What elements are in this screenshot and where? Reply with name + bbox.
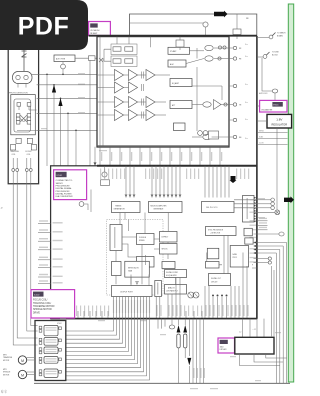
svg-text:TRAVERSE MOTOR/: TRAVERSE MOTOR/	[33, 305, 55, 308]
driver output pads	[59, 371, 62, 374]
laser package	[13, 72, 33, 84]
wire pin stub	[139, 147, 141, 165]
svg-text:EQ AMP: EQ AMP	[172, 82, 180, 85]
wire amp input	[97, 87, 115, 89]
op-amp stage B3	[129, 97, 138, 108]
EQ box 1	[168, 47, 190, 54]
test point	[229, 104, 233, 106]
wire interstage C	[138, 74, 146, 76]
wire PD out E	[37, 112, 97, 114]
test point	[229, 136, 233, 138]
svg-text:TO SERVO: TO SERVO	[277, 33, 286, 35]
svg-text:D/A CONVERTER: D/A CONVERTER	[56, 195, 73, 198]
wire vert feed 2	[53, 85, 55, 166]
svg-text:XLAT: XLAT	[259, 136, 263, 139]
wire drive line	[66, 297, 132, 356]
svg-text:2.2: 2.2	[239, 332, 241, 334]
svg-text:CIRCUIT: CIRCUIT	[211, 282, 217, 284]
wire drive line	[66, 297, 138, 364]
wire PD out A	[75, 57, 97, 59]
wire bottom pin stubs	[77, 311, 79, 319]
wire bus row	[257, 144, 288, 146]
PLL box	[202, 202, 235, 213]
wire RF vert j1	[196, 67, 198, 131]
wire RF vert rail	[99, 37, 101, 146]
servo interior wires	[156, 278, 180, 319]
op-amp stage A2	[115, 82, 124, 93]
fan pin labels	[113, 300, 114, 313]
wire vert feed 6	[89, 58, 91, 166]
wire pin stub left	[38, 283, 51, 285]
op-amp stage B1	[129, 70, 138, 81]
traverse motor M501	[18, 356, 26, 364]
wire pin stub	[179, 147, 181, 165]
svg-text:Ⓤ Ⓛ: Ⓤ Ⓛ	[1, 390, 7, 394]
svg-text:VR501: VR501	[273, 105, 279, 107]
svg-text:INTERFACE: INTERFACE	[154, 207, 165, 210]
pickup terminal pads	[16, 138, 21, 143]
svg-text:Vcc: Vcc	[245, 56, 248, 58]
wire RF out row1	[190, 50, 205, 52]
EFM comparator	[279, 232, 284, 236]
wire pin stub	[189, 147, 191, 165]
wire interstage	[124, 101, 129, 103]
svg-text:MOTOR: MOTOR	[3, 360, 10, 362]
connector to disk 1	[257, 37, 269, 39]
wire drive line	[66, 297, 150, 381]
transistor Q102	[61, 64, 66, 69]
wire pin stub	[99, 147, 101, 165]
transistor Q104	[205, 56, 213, 61]
IC501 top pin labels	[100, 169, 101, 180]
IC502 driver block	[35, 321, 66, 381]
servo block bottom edge	[51, 318, 257, 320]
wire pd loop	[17, 106, 37, 130]
analog LPF box	[165, 285, 187, 295]
optical pickup assembly outline	[8, 46, 38, 184]
wire RF out row3	[192, 104, 202, 106]
wire vert feed 1	[46, 74, 48, 166]
wire drive line	[66, 297, 144, 372]
wire drive line	[66, 297, 114, 332]
svg-text:SYNC PROCESSOR: SYNC PROCESSOR	[208, 230, 224, 232]
svg-text:Vcc: Vcc	[245, 119, 248, 121]
wire tracking coil -	[17, 171, 37, 338]
wire pin stub	[199, 147, 201, 165]
svg-text:FOCUS: FOCUS	[26, 151, 33, 153]
svg-text:TRAVERSE: TRAVERSE	[3, 356, 13, 359]
wire aux col	[270, 265, 272, 267]
timing generator box	[112, 202, 141, 213]
svg-text:TIMING: TIMING	[115, 205, 122, 207]
capacitor bank	[142, 72, 144, 79]
test point	[229, 58, 233, 60]
diode D102	[99, 58, 103, 62]
digital out box	[206, 262, 220, 269]
svg-text:REGULATOR: REGULATOR	[271, 122, 287, 126]
wire pin stub	[119, 147, 121, 165]
pin stub labels	[101, 152, 102, 161]
wire RF vert rail2	[102, 58, 104, 146]
shield terminals	[188, 292, 194, 298]
wire amp input	[97, 114, 115, 116]
wire PD out D	[37, 97, 97, 99]
wire photodiode cross	[20, 115, 27, 122]
wire drive line	[66, 297, 141, 368]
output port box	[112, 286, 153, 297]
1.8V regulator	[267, 114, 292, 128]
transistor Q106	[203, 134, 211, 139]
svg-text:MICROCOMPUTER: MICROCOMPUTER	[151, 205, 168, 207]
driver input pads	[39, 338, 42, 341]
wire amp input	[97, 101, 115, 103]
svg-text:3T AMP: 3T AMP	[170, 50, 177, 53]
wire interstage	[124, 87, 129, 89]
photodiode segment C	[16, 114, 20, 118]
arrow PLL feed	[230, 176, 237, 183]
arrow regulator feed	[187, 358, 191, 366]
wire fb join	[104, 49, 111, 61]
wire pin stub	[169, 147, 171, 165]
svg-text:M: M	[21, 359, 24, 363]
svg-text:TRACKING: TRACKING	[10, 150, 19, 153]
wire RF internal row	[155, 74, 170, 76]
filter box 1	[170, 79, 192, 87]
IC101 RF amplifier block	[97, 37, 229, 147]
wire arrow into servo	[94, 147, 96, 166]
wire top feeds	[117, 37, 180, 50]
wire pin stub left	[38, 249, 51, 251]
wire to amplifier	[262, 58, 272, 91]
wire drive line	[66, 297, 135, 360]
photodiode segment D	[27, 114, 31, 118]
IC501 description box	[54, 170, 87, 200]
wire feeds to IC503	[242, 319, 244, 338]
junction dots	[212, 295, 214, 297]
wire latch row	[254, 249, 280, 251]
capacitor C502 (polar)	[178, 319, 180, 325]
bottom pin band extension	[76, 306, 77, 317]
capacitor C503 (polar)	[184, 319, 186, 325]
svg-text:FOCUS COIL/: FOCUS COIL/	[33, 300, 48, 302]
focus servo box	[110, 225, 122, 251]
svg-text:DEFECT: DEFECT	[162, 237, 169, 239]
gain box	[137, 257, 155, 268]
IC501 servo DSP block	[51, 166, 257, 319]
driver output pads	[59, 358, 62, 361]
wire focus coil +	[27, 171, 38, 331]
wire pin stub left	[38, 276, 51, 278]
svg-text:IC502: IC502	[57, 323, 62, 325]
arrow to sled	[284, 196, 294, 203]
wire main top bus (thick)	[89, 35, 257, 37]
driver output pads	[59, 327, 62, 330]
svg-text:M: M	[21, 373, 24, 377]
wire IC503 out 2	[254, 354, 283, 362]
wire pin stub left	[38, 240, 51, 242]
op-amp stage B4	[129, 110, 138, 121]
wire bus row	[257, 138, 288, 140]
arrow feed 3	[58, 98, 62, 106]
wire pin stub left	[38, 267, 51, 269]
IC503 driver IC	[235, 337, 274, 354]
APC amp box	[54, 55, 75, 62]
microcomputer interface box	[149, 202, 183, 213]
IC101 RF amp label box	[89, 22, 111, 36]
svg-text:SPINDLE MOTOR: SPINDLE MOTOR	[33, 309, 52, 311]
photo detector IC	[11, 95, 36, 135]
svg-text:DOUBLE: DOUBLE	[139, 237, 147, 239]
defect box	[160, 232, 178, 243]
wire regulator out	[276, 128, 278, 210]
wire drive line	[66, 297, 126, 348]
op-amp stage C3	[146, 97, 155, 108]
wire drive line	[66, 297, 147, 376]
LPF box	[155, 281, 162, 297]
analog out box	[209, 274, 231, 286]
driver stage 4	[44, 357, 58, 364]
svg-text:+ DETECTOR: + DETECTOR	[210, 233, 221, 235]
wire RF out row2	[186, 59, 204, 64]
svg-text:SPINDLE: SPINDLE	[3, 372, 11, 374]
wire inner divider	[90, 190, 92, 213]
driver stage 1	[44, 325, 58, 335]
capacitor C112	[224, 103, 227, 106]
capacitor C520	[272, 89, 278, 93]
wires dsp mesh extra	[116, 213, 228, 295]
svg-text:Vcc: Vcc	[245, 138, 248, 140]
sense terminals	[254, 258, 269, 260]
svg-text:Vcc: Vcc	[245, 44, 248, 46]
wire interstage	[124, 74, 129, 76]
connector to disk 2	[257, 56, 263, 58]
svg-text:RF AMP: RF AMP	[90, 32, 98, 35]
wire vert feed 5	[75, 130, 77, 166]
photodiode segment A	[17, 103, 21, 107]
wire down col 1	[286, 243, 288, 384]
arrow feed 2	[52, 85, 56, 93]
wire PD out B	[32, 73, 97, 75]
PDF badge	[0, 0, 88, 50]
driver input pads	[39, 326, 42, 329]
oscillator box	[209, 131, 219, 139]
defect hold box	[162, 262, 175, 269]
transistor Q105	[203, 102, 211, 107]
capacitor C111	[218, 57, 221, 60]
wires dsp mesh	[122, 220, 168, 266]
wire top supply	[130, 14, 257, 36]
wire pin stub left	[38, 223, 51, 225]
wire drive line	[66, 297, 120, 340]
filter box 2	[170, 101, 192, 109]
wire PD out C	[37, 84, 97, 86]
misc annotation smudges	[78, 73, 85, 74]
svg-text:DSL PLL VCO: DSL PLL VCO	[206, 207, 218, 209]
wires to PLL	[204, 166, 206, 198]
wire drive line	[66, 297, 123, 344]
bead L501	[169, 325, 175, 329]
oscillator Q501	[79, 202, 84, 207]
wire pin stub	[159, 147, 161, 165]
coil terminals	[12, 169, 15, 172]
arrow top supply	[214, 11, 228, 18]
transistor Q101	[203, 22, 208, 27]
svg-text:1.8V: 1.8V	[276, 117, 282, 121]
svg-text:AUTO PWR: AUTO PWR	[56, 58, 66, 61]
wire pin stub	[209, 147, 211, 165]
op-amp stage C4	[146, 110, 155, 121]
svg-text:DRIVE: DRIVE	[33, 312, 40, 314]
wire aux stubs	[158, 319, 165, 329]
op-amp stage A1	[115, 70, 124, 81]
ground rail inside RF	[97, 145, 229, 147]
svg-text:CD MECH/: CD MECH/	[90, 30, 100, 32]
svg-text:SHOCK: SHOCK	[162, 249, 169, 251]
test point	[229, 47, 233, 49]
driver stage 3	[44, 347, 58, 354]
driver output pads	[59, 339, 62, 342]
IC502 description box	[31, 290, 75, 318]
driver input pads	[39, 370, 42, 373]
wire tracking coil +	[13, 171, 37, 345]
capacitor C102	[176, 40, 184, 47]
wires to timing generator	[125, 166, 127, 198]
dsp dashed region	[107, 220, 164, 296]
shock box	[160, 244, 178, 255]
wire pin stub	[109, 147, 111, 165]
EQ box 2	[168, 60, 186, 67]
wire latch row	[254, 242, 287, 244]
connector CN501	[275, 210, 280, 215]
wire pin stub	[219, 147, 221, 165]
svg-text:SERVO AUTO: SERVO AUTO	[128, 267, 140, 270]
op-amp stage B2	[129, 82, 138, 93]
coil terminal pads	[11, 145, 16, 151]
wire down col 2	[282, 246, 284, 383]
capacitor C110	[218, 46, 221, 49]
op-amp stage C1	[146, 70, 155, 81]
sub box C	[207, 248, 219, 258]
laser diode D101	[23, 49, 25, 71]
driver stage 5	[44, 369, 58, 377]
right pin-name labels	[250, 199, 257, 200]
wire pin stub left	[38, 232, 51, 234]
wire pin stub	[149, 147, 151, 165]
crystal X501	[102, 172, 107, 177]
wire amp input	[97, 74, 115, 76]
transistor Q107	[198, 131, 203, 136]
wire PD out F	[37, 129, 97, 131]
bias box	[174, 123, 186, 131]
IC503 description box	[218, 338, 235, 353]
wire IC503 out 3	[266, 354, 287, 358]
svg-text:IC502: IC502	[34, 295, 40, 297]
servo output pins group2	[257, 220, 268, 222]
VR501 pink box	[260, 100, 287, 112]
servo sub box B	[125, 261, 150, 277]
wire vert feed 4	[67, 113, 69, 166]
wire main right border	[256, 36, 258, 319]
laser control box	[243, 196, 255, 223]
wire down col 3	[279, 250, 281, 384]
junction dots feed	[46, 74, 48, 76]
svg-text:OSC/MASTER: OSC/MASTER	[261, 108, 273, 111]
svg-text:DIGITAL FILTER/: DIGITAL FILTER/	[56, 192, 72, 195]
photodiode array inner	[14, 99, 30, 132]
wire regulator in	[257, 120, 267, 122]
wire latch row	[254, 252, 277, 254]
sync processor box	[206, 227, 237, 236]
wire down col 4	[275, 253, 277, 383]
svg-text:COIL: COIL	[27, 154, 31, 156]
svg-text:COIL: COIL	[12, 154, 16, 156]
svg-text:GENERATOR: GENERATOR	[114, 207, 126, 210]
svg-text:SPEED: SPEED	[139, 240, 146, 242]
wire bus row	[257, 132, 288, 134]
svg-text:Vcc: Vcc	[245, 84, 248, 86]
driver input pads	[39, 348, 42, 351]
capacitor C101	[236, 14, 238, 29]
driver stage 2	[44, 338, 58, 346]
wire interstage	[124, 114, 129, 116]
svg-text:MOTOR: MOTOR	[3, 374, 10, 376]
svg-text:16bit: 16bit	[220, 345, 224, 348]
laser control pin arrows	[254, 197, 256, 199]
svg-text:IC501: IC501	[57, 175, 63, 177]
bottom pin labels	[156, 305, 157, 316]
wire vert feed 3	[60, 98, 62, 166]
svg-text:PDF: PDF	[18, 13, 70, 41]
wires to output port	[116, 245, 142, 285]
servo sub box A	[112, 262, 122, 276]
ram box	[244, 228, 252, 236]
servo output pins group1	[234, 199, 257, 201]
wire latch row	[254, 245, 284, 247]
svg-text:TO DISK: TO DISK	[272, 52, 280, 54]
op-amp stage A4	[115, 110, 124, 121]
svg-text:OUTPUT PORT: OUTPUT PORT	[120, 291, 134, 293]
svg-text:TRACKING COIL/: TRACKING COIL/	[33, 302, 52, 305]
wire stub	[130, 22, 204, 24]
svg-text:DRIVER: DRIVER	[220, 349, 227, 351]
transistor Q103	[205, 45, 213, 50]
sub box D	[230, 246, 248, 268]
photodiode segment B	[27, 103, 31, 107]
svg-text:BOARD: BOARD	[277, 35, 284, 38]
svg-text:BLOCK: BLOCK	[272, 55, 279, 57]
servo block top edge (thick)	[97, 165, 257, 167]
feedback network 2	[111, 56, 137, 67]
feedback network 1	[111, 44, 137, 55]
digital filter box	[165, 270, 187, 278]
wires to microcomputer interface	[151, 166, 153, 198]
highlight strip (green sidebar)	[288, 4, 293, 382]
wire RF right links	[192, 48, 233, 120]
buffer amp	[214, 100, 222, 110]
rail labels	[193, 368, 194, 378]
wire focus coil -	[31, 171, 38, 325]
op-amp stage A3	[115, 97, 124, 108]
spindle motor M502	[18, 370, 26, 378]
wire drive line	[66, 297, 117, 336]
wire drive line	[66, 297, 129, 352]
wire IC503 out 1	[240, 354, 280, 366]
wire pin stub	[129, 147, 131, 165]
svg-text:DIGITAL SIGNAL: DIGITAL SIGNAL	[56, 187, 73, 190]
driver input pads	[39, 357, 42, 360]
wire pin stub left	[38, 259, 51, 261]
resistor R101	[89, 56, 96, 61]
